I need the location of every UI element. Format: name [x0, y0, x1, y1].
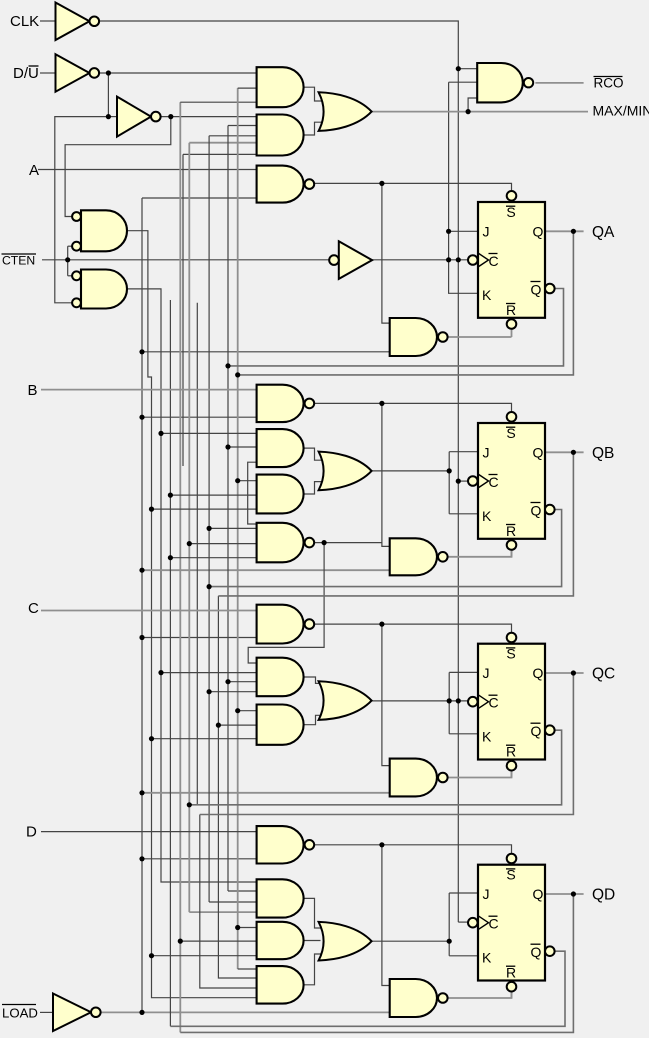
svg-text:Q: Q	[533, 224, 544, 240]
svg-text:K: K	[482, 508, 492, 524]
svg-text:R: R	[506, 965, 516, 981]
svg-text:CTEN: CTEN	[2, 254, 35, 268]
svg-text:CLK: CLK	[10, 13, 39, 30]
svg-text:A: A	[29, 162, 39, 179]
svg-text:J: J	[483, 665, 490, 681]
svg-text:QA: QA	[592, 224, 615, 241]
svg-text:C: C	[489, 474, 499, 490]
svg-text:K: K	[482, 950, 492, 966]
svg-text:J: J	[483, 445, 490, 461]
svg-text:Q: Q	[533, 445, 544, 461]
svg-text:D/U: D/U	[13, 65, 39, 82]
svg-text:K: K	[482, 287, 492, 303]
svg-text:Q: Q	[531, 503, 542, 519]
svg-text:Q: Q	[533, 886, 544, 902]
svg-text:RCO: RCO	[594, 76, 624, 91]
svg-text:LOAD: LOAD	[2, 1006, 38, 1021]
svg-text:D: D	[26, 824, 37, 841]
svg-text:Q: Q	[531, 944, 542, 960]
svg-text:Q: Q	[533, 665, 544, 681]
svg-text:R: R	[506, 744, 516, 760]
svg-text:J: J	[483, 224, 490, 240]
svg-text:R: R	[506, 302, 516, 318]
svg-text:C: C	[489, 253, 499, 269]
svg-text:Q: Q	[531, 723, 542, 739]
svg-text:Q: Q	[531, 282, 542, 298]
svg-text:C: C	[489, 695, 499, 711]
svg-text:C: C	[28, 600, 39, 617]
svg-text:R: R	[506, 523, 516, 539]
svg-text:QC: QC	[592, 666, 615, 683]
svg-text:B: B	[28, 382, 38, 399]
svg-text:C: C	[489, 916, 499, 932]
svg-text:K: K	[482, 729, 492, 745]
svg-text:QD: QD	[592, 887, 615, 904]
svg-text:J: J	[483, 886, 490, 902]
svg-text:QB: QB	[592, 445, 614, 462]
svg-text:MAX/MIN: MAX/MIN	[593, 103, 649, 119]
